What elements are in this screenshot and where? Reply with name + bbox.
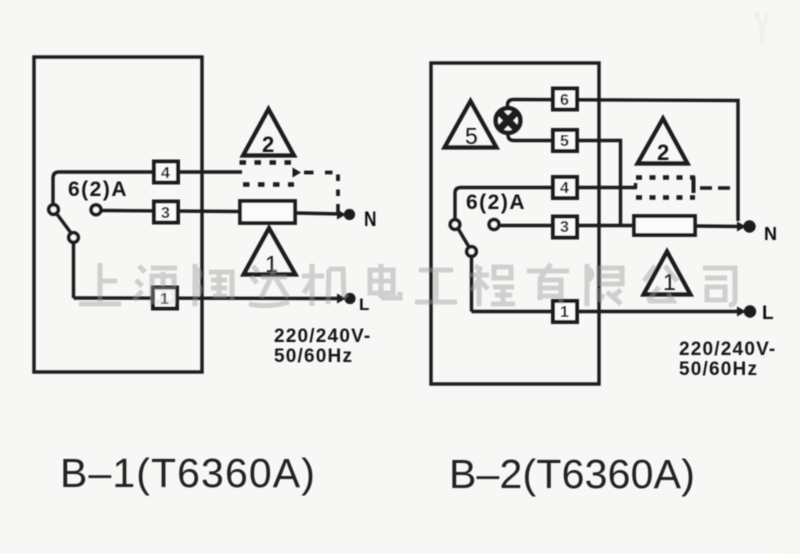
switch arm B-1: [57, 214, 72, 234]
indicator lamp B-2: [496, 108, 521, 133]
svg-text:6(2)A: 6(2)A: [68, 178, 128, 201]
svg-text:3: 3: [560, 219, 569, 236]
wire terminal 1 B-2: [472, 310, 743, 313]
svg-text:1: 1: [560, 304, 569, 321]
faint ghost mark top right: [756, 12, 768, 44]
fixed contact B-1: [91, 205, 101, 215]
arrowhead B-1: [293, 168, 302, 178]
terminal 1 B-1: [153, 288, 177, 309]
warning triangle 1 B-2: [644, 252, 691, 296]
thermostat outline B-2: [431, 63, 599, 384]
terminal 1 B-2: [553, 301, 577, 322]
junction tick B-1: [336, 204, 340, 213]
svg-text:5: 5: [465, 123, 478, 149]
dotted row lower B-2: [636, 195, 695, 200]
warning triangle 2 B-1: [243, 109, 294, 157]
warning triangle 2 B-2: [638, 119, 688, 166]
terminal 5 B-2: [553, 130, 577, 151]
fixed contact B-2: [489, 220, 499, 230]
wire terminal 5 B-2: [508, 133, 621, 226]
warning triangle 5 B-2: [445, 101, 497, 149]
svg-text:L: L: [359, 295, 369, 314]
wire terminal 1 B-1: [74, 296, 343, 300]
dashed link to N B-2: [700, 186, 736, 190]
dotted row lower B-1: [243, 182, 294, 187]
svg-text:3: 3: [161, 205, 170, 222]
warning triangle 1 B-1: [244, 228, 296, 277]
wire terminal 4 B-1: [53, 172, 242, 203]
wire down from switch B-1: [72, 243, 75, 298]
terminal 3 B-2: [553, 217, 577, 238]
terminal 6 B-2: [553, 89, 577, 110]
svg-text:2: 2: [262, 132, 274, 157]
switch pivot contact B-2: [450, 220, 460, 230]
wire down from switch B-2: [470, 257, 473, 312]
svg-text:6: 6: [560, 92, 569, 109]
switch moving contact B-2: [467, 247, 477, 257]
node L B-1: [337, 293, 369, 314]
wire to N B-1: [295, 213, 342, 214]
svg-text:5: 5: [560, 133, 569, 150]
svg-text:B–2(T6360A): B–2(T6360A): [449, 451, 695, 497]
svg-text:220/240V-: 220/240V-: [679, 339, 776, 360]
terminal 4 B-1: [154, 162, 178, 183]
svg-text:4: 4: [161, 165, 170, 182]
switch arm B-2: [458, 229, 469, 248]
svg-text:N: N: [364, 208, 377, 231]
heater load resistor B-1: [240, 201, 295, 223]
node N B-1: [337, 208, 377, 231]
wire terminal 3 B-2: [500, 224, 634, 227]
wire terminal 3 B-1: [102, 211, 240, 212]
svg-text:L: L: [762, 303, 774, 324]
terminal 3 B-1: [154, 202, 178, 223]
svg-text:2: 2: [657, 140, 669, 165]
switch moving contact B-1: [69, 233, 79, 243]
dotted row upper B-1: [240, 160, 293, 165]
node L B-2: [737, 303, 774, 324]
dashed link to N B-1: [304, 173, 338, 197]
wire to N B-2: [695, 224, 742, 228]
svg-text:B–1(T6360A): B–1(T6360A): [60, 450, 316, 496]
dotted row upper B-2: [636, 175, 695, 180]
heater load resistor B-2: [634, 216, 695, 235]
svg-text:6(2)A: 6(2)A: [466, 191, 526, 214]
svg-text:220/240V-: 220/240V-: [274, 326, 371, 347]
switch pivot contact B-1: [49, 205, 59, 215]
svg-text:50/60Hz: 50/60Hz: [274, 346, 353, 367]
node N B-2: [737, 220, 777, 244]
terminal 4 B-2: [553, 177, 577, 198]
wire terminal 4 B-2: [455, 183, 637, 218]
wire terminal 6 B-2: [508, 100, 739, 222]
svg-text:4: 4: [560, 180, 569, 197]
watermark overlay: [79, 263, 735, 306]
svg-text:50/60Hz: 50/60Hz: [679, 359, 758, 380]
thermostat outline B-1: [34, 57, 202, 372]
svg-text:N: N: [764, 224, 777, 244]
arrow tick B-2: [692, 177, 696, 193]
watermark underlay: [79, 263, 735, 306]
